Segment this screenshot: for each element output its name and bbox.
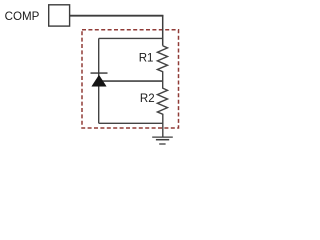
svg-text:COMP: COMP — [5, 10, 40, 23]
svg-text:R2: R2 — [140, 93, 155, 105]
svg-text:R1: R1 — [139, 53, 154, 65]
